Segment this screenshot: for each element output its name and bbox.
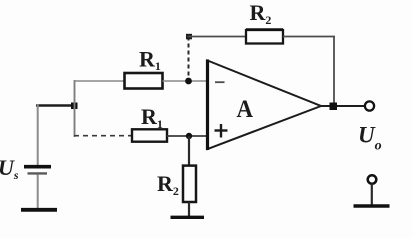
label Uo bbox=[358, 123, 382, 154]
wire: R2 to ground bbox=[188, 202, 190, 217]
wire: feedback right drop to output node bbox=[333, 37, 335, 105]
wire: node down to R2 ground resistor bbox=[188, 136, 190, 166]
reference terminal circle bbox=[368, 175, 377, 184]
wire: R1 lower to non-inverting node bbox=[167, 135, 207, 137]
resistor R1 (inverting input) bbox=[125, 73, 163, 89]
svg-text:R1: R1 bbox=[141, 104, 163, 131]
label R2 feedback bbox=[250, 0, 272, 27]
wire: feedback top left segment bbox=[188, 36, 247, 38]
wire: feedback top right segment bbox=[283, 36, 335, 38]
resistor R1 (non-inverting input) bbox=[132, 129, 167, 141]
node: inverting input junction bbox=[185, 78, 192, 85]
wire: left rail between branches bbox=[74, 80, 76, 137]
wire: battery positive lead to input node bbox=[36, 104, 74, 107]
label A (op-amp) bbox=[237, 94, 254, 123]
svg-text:A: A bbox=[237, 94, 254, 123]
op-amp U1 triangle bbox=[208, 60, 322, 151]
label R1 upper bbox=[139, 47, 161, 74]
wire: feedback left riser bbox=[188, 37, 190, 80]
ground (reference terminal) bbox=[354, 204, 390, 208]
ground (source) bbox=[21, 208, 57, 212]
svg-text:Us: Us bbox=[0, 155, 19, 182]
node: output junction bbox=[330, 103, 338, 111]
wire: op-amp output bbox=[319, 105, 366, 107]
output terminal Uo bbox=[365, 101, 374, 110]
node: non-inverting input junction bbox=[186, 133, 192, 139]
wire: reference terminal post bbox=[371, 184, 373, 206]
label R2 lower bbox=[157, 171, 179, 198]
junction blob: feedback corner bbox=[186, 34, 192, 40]
wire: source top lead bbox=[37, 105, 39, 166]
ground (R2) bbox=[171, 216, 205, 219]
wire: R1 to inverting input node bbox=[163, 80, 208, 82]
svg-text:R2: R2 bbox=[250, 0, 272, 27]
svg-text:Uo: Uo bbox=[358, 123, 382, 154]
label Us bbox=[0, 155, 19, 182]
resistor R2 (feedback) bbox=[246, 30, 283, 44]
svg-text:R2: R2 bbox=[157, 171, 179, 198]
label R1 lower bbox=[141, 104, 163, 131]
svg-text:R1: R1 bbox=[139, 47, 161, 74]
resistor R2 (to ground) bbox=[183, 166, 196, 202]
op-amp inverting input marker (minus) bbox=[215, 81, 225, 83]
node: input junction bbox=[71, 103, 78, 110]
wire: node to resistor R1 upper bbox=[74, 80, 125, 82]
wire: node to resistor R1 lower (dashed scan) bbox=[74, 135, 132, 137]
voltage source Us (battery) bbox=[24, 167, 51, 174]
wire: source bottom lead bbox=[37, 175, 39, 209]
op-amp non-inverting input marker (plus) bbox=[215, 124, 228, 138]
